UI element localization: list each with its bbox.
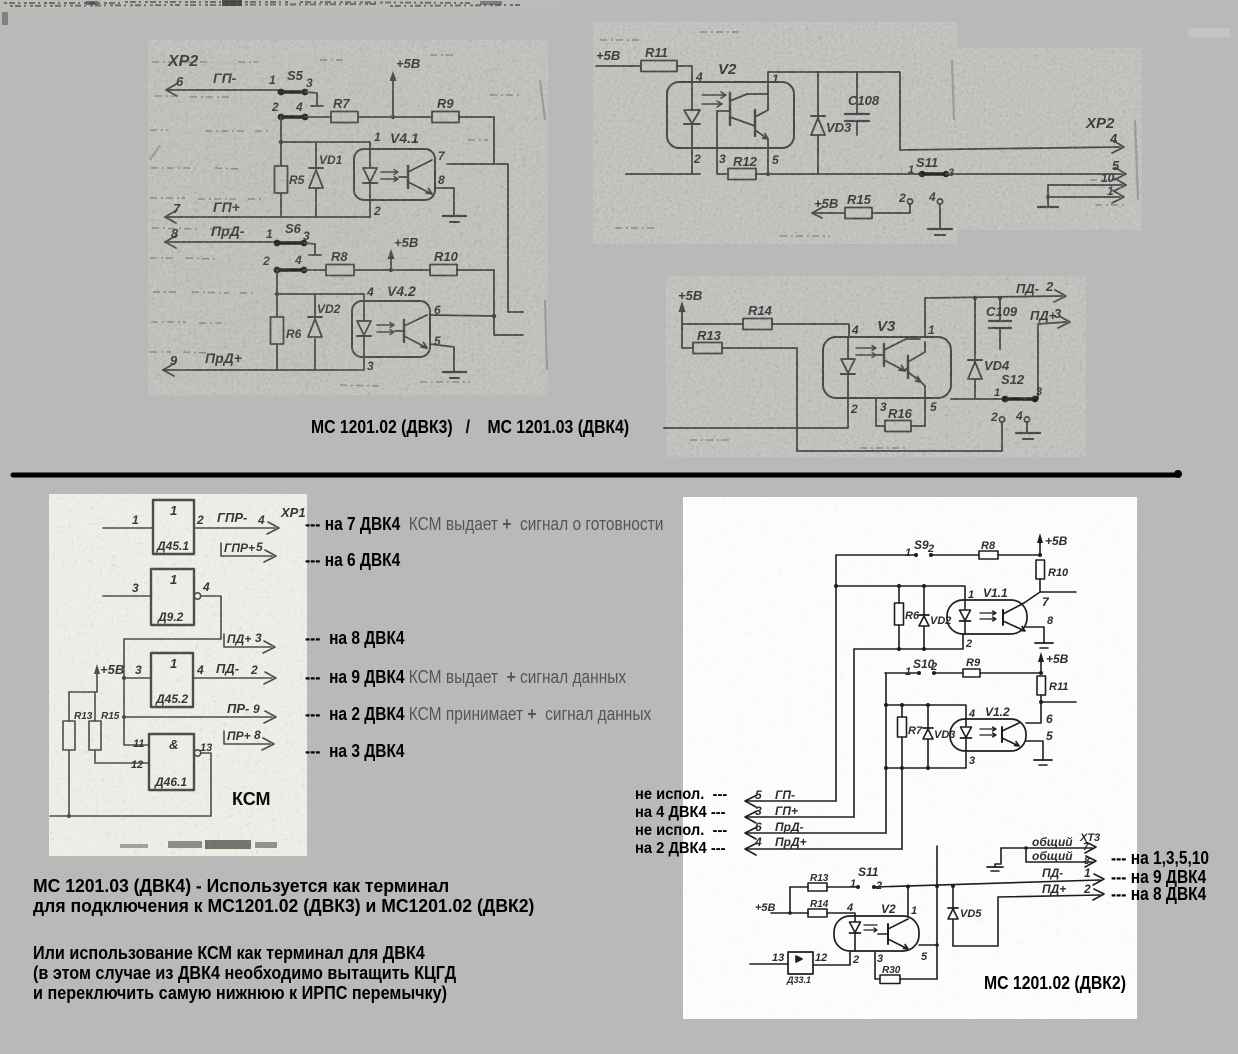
- optocoupler V2: [667, 61, 794, 174]
- svg-text:6: 6: [176, 74, 184, 89]
- svg-text:2: 2: [693, 152, 701, 166]
- svg-text:R15: R15: [847, 192, 872, 207]
- svg-text:ПрД-: ПрД-: [775, 820, 804, 834]
- wire pin2 down: [369, 200, 371, 217]
- wire top net to pin1: [834, 584, 974, 601]
- resistor R10 (DVK2): [1036, 560, 1069, 592]
- wire D33.1 pin13 input: [750, 952, 827, 964]
- svg-text:VD3: VD3: [826, 120, 852, 135]
- wire R14 to opto pin4: [772, 323, 859, 337]
- resistor R13: [682, 328, 722, 354]
- wire pin6-5 ground: [1026, 729, 1053, 760]
- wire box bottom to S12: [951, 398, 1005, 400]
- svg-text:+5В: +5В: [394, 235, 418, 250]
- wire node to opto pin4: [277, 294, 364, 301]
- capacitor C109: [986, 296, 1018, 349]
- svg-text:R8: R8: [981, 540, 996, 552]
- svg-text:+5В: +5В: [100, 662, 124, 677]
- svg-text:5: 5: [1046, 729, 1053, 743]
- right-of-KCM annotations: [305, 514, 663, 535]
- svg-text:12: 12: [815, 952, 827, 964]
- svg-text:ПР-: ПР-: [227, 701, 249, 716]
- svg-text:R12: R12: [733, 154, 758, 169]
- svg-text:4: 4: [202, 580, 210, 594]
- svg-text:1: 1: [994, 387, 1000, 399]
- wire D46.1 pin11 input: [124, 738, 149, 750]
- node GP+ exit arrow pin3: [745, 804, 854, 823]
- svg-text:2: 2: [262, 254, 270, 268]
- svg-text:3: 3: [367, 359, 374, 373]
- svg-text:R9: R9: [437, 96, 454, 111]
- wire R10 right corner down, pin6 junction, stub: [457, 270, 523, 335]
- node common (obschiy) XT3 pin7 arrow: [1001, 832, 1100, 853]
- optocoupler V4.1: [354, 130, 446, 218]
- node PrD+ pin 9 arrow: [163, 350, 364, 376]
- wire opto pin3 down to R12: [717, 111, 728, 174]
- svg-text:V2: V2: [718, 61, 737, 78]
- svg-text:4: 4: [928, 190, 936, 204]
- wire R13 to S12 pin2 (long path): [722, 348, 1002, 451]
- svg-text:6: 6: [1046, 712, 1053, 726]
- switch S9: [905, 538, 934, 559]
- wire top net to pin4: [884, 703, 975, 720]
- wire opto pin3 to R16: [876, 398, 887, 426]
- svg-text:4: 4: [257, 513, 265, 527]
- power +5V feeding R11: [596, 48, 641, 66]
- svg-text:R5: R5: [289, 173, 305, 187]
- resistor R7: [331, 96, 358, 123]
- wire V2 pin5: [919, 945, 937, 963]
- svg-text:3: 3: [880, 400, 887, 414]
- LED: [964, 600, 966, 634]
- phototransistor: [1002, 610, 1004, 625]
- svg-text:S5: S5: [287, 68, 304, 83]
- svg-text:2: 2: [1045, 279, 1054, 294]
- svg-text:1: 1: [1084, 866, 1091, 880]
- svg-text:C108: C108: [848, 93, 880, 108]
- svg-text:6: 6: [755, 820, 762, 834]
- resistor R12: [728, 154, 758, 180]
- svg-text:R8: R8: [331, 249, 348, 264]
- vertical net at x937: [935, 846, 939, 979]
- svg-text:ПрД-: ПрД-: [211, 223, 245, 239]
- svg-text:4: 4: [1015, 409, 1023, 423]
- diode VD5: [948, 886, 982, 946]
- wire opto pin2 down and left: [664, 398, 858, 428]
- svg-text:общий: общий: [1032, 849, 1073, 863]
- svg-text:R7: R7: [908, 725, 923, 737]
- svg-text:R6: R6: [286, 327, 302, 341]
- power +5V (second): [1038, 652, 1069, 673]
- switch S6: [262, 221, 310, 273]
- connector XP1 label: [280, 505, 306, 520]
- svg-text:ГПР+: ГПР+: [224, 541, 255, 555]
- svg-text:VD5: VD5: [960, 908, 982, 920]
- svg-text:ГП-: ГП-: [775, 788, 795, 802]
- svg-text:ХР2: ХР2: [167, 53, 198, 70]
- svg-text:R30: R30: [882, 965, 901, 976]
- svg-text:S9: S9: [914, 538, 929, 552]
- node GP+ pin 7 arrow: [165, 199, 370, 223]
- LED: [847, 337, 849, 398]
- svg-text:+5В: +5В: [814, 196, 838, 211]
- svg-text:3: 3: [132, 581, 139, 595]
- resistor R30: [880, 965, 937, 984]
- wire R13/R14 left link: [788, 887, 792, 915]
- wire S9 row: [836, 554, 916, 556]
- svg-text:1: 1: [905, 547, 911, 559]
- svg-text:ПД+: ПД+: [1030, 308, 1057, 323]
- light arrows: [980, 727, 996, 731]
- long vertical net PrD-: [885, 673, 887, 833]
- svg-text:ГП-: ГП-: [213, 70, 237, 86]
- node PD+ XP1 pin3 arrow: [224, 631, 275, 653]
- svg-text:&: &: [169, 737, 178, 752]
- phototransistor: [403, 320, 405, 342]
- ground (V1.1 pin8): [1035, 643, 1053, 648]
- svg-text:7: 7: [173, 201, 181, 216]
- wire pin7 net to lower stub: [447, 164, 523, 312]
- svg-text:ГП+: ГП+: [213, 199, 240, 215]
- wire pin6 to junction: [430, 315, 494, 316]
- svg-text:8: 8: [1047, 615, 1054, 627]
- switch S10: [905, 657, 937, 678]
- svg-text:9: 9: [253, 702, 260, 716]
- optocoupler V1.1: [947, 586, 1027, 634]
- svg-text:3: 3: [877, 953, 883, 965]
- power +5V (V2 bottom): [755, 902, 808, 914]
- svg-text:8: 8: [438, 173, 445, 187]
- svg-text:9: 9: [170, 353, 178, 368]
- wire D9.2 out down-left bus: [122, 596, 221, 745]
- node GPR- to XP1 pin4 arrow: [194, 510, 279, 534]
- ground (S11 pin4): [928, 229, 952, 235]
- S12 lower pins 2,4: [990, 409, 1030, 424]
- svg-text:7: 7: [438, 149, 446, 163]
- node PR- XP1 pin9 arrow: [124, 701, 276, 723]
- svg-text:1: 1: [968, 589, 974, 601]
- connector XP2 label (right): [1085, 115, 1115, 132]
- resistor R8 (DVK2): [979, 540, 998, 559]
- svg-text:V1.2: V1.2: [985, 705, 1010, 719]
- wire R9 to right corner down to pin7: [459, 117, 494, 164]
- wire R16 to opto pin5: [911, 398, 937, 426]
- wire S9.2 to R8: [931, 554, 979, 556]
- scan blobs at patch bottom: [120, 840, 277, 849]
- optocoupler V4.2: [352, 283, 441, 373]
- long vertical net GP+: [853, 649, 855, 817]
- light arrows: [980, 611, 996, 615]
- svg-text:5: 5: [772, 153, 779, 167]
- wire S10 row: [885, 672, 919, 674]
- node PrD- exit arrow pin6: [745, 820, 886, 839]
- diode VD3: [811, 72, 852, 174]
- node PD+ wire with arrow pin2: [998, 882, 1104, 900]
- switch S11 (DVK2): [850, 865, 882, 892]
- svg-text:ПД-: ПД-: [1016, 281, 1039, 296]
- wire stub from S6 pin3: [304, 243, 321, 255]
- wire stub from S5 pin3: [305, 92, 323, 106]
- wire D46.1 out down to bottom bus: [201, 753, 211, 816]
- node PD- pin2 arrow: [925, 279, 1066, 302]
- diode VD1: [309, 142, 343, 217]
- resistor R11 (DVK2): [1037, 676, 1068, 702]
- svg-text:R13: R13: [810, 873, 829, 884]
- svg-text:4: 4: [846, 902, 853, 914]
- svg-text:VD1: VD1: [319, 153, 343, 167]
- scanned paper patches (backgrounds): [0, 0, 560, 9]
- svg-text:1: 1: [374, 130, 381, 144]
- darlington transistor pair: [729, 93, 731, 125]
- svg-text:ПрД+: ПрД+: [775, 835, 807, 849]
- svg-text:R10: R10: [434, 249, 459, 264]
- svg-text:1: 1: [1107, 184, 1114, 198]
- svg-text:2: 2: [373, 204, 381, 218]
- diode VD4: [968, 296, 1010, 399]
- svg-text:10: 10: [1101, 171, 1115, 185]
- resistor R6: [271, 317, 302, 344]
- node GP- pin 6 arrow: [166, 70, 281, 96]
- svg-text:R15: R15: [101, 711, 120, 722]
- svg-text:2: 2: [990, 410, 998, 424]
- node XP2 pin4 arrow: [900, 131, 1124, 153]
- long vertical net PrD+: [901, 768, 903, 849]
- wire S12 pin4 to ground: [1026, 422, 1028, 433]
- svg-text:R6: R6: [905, 610, 920, 622]
- svg-text:S11: S11: [858, 865, 879, 879]
- logic gate D9.2: [151, 569, 194, 625]
- svg-text:3: 3: [255, 631, 262, 645]
- power +5V (channel 1): [390, 56, 421, 117]
- svg-text:12: 12: [131, 759, 143, 771]
- light arrows: [702, 92, 726, 98]
- D9.2 output bubble pin4: [194, 580, 210, 599]
- bottom-left paragraphs: [33, 876, 534, 915]
- svg-text:V2: V2: [881, 902, 896, 916]
- svg-text:4: 4: [366, 285, 374, 299]
- wire pin5 to ground: [430, 344, 454, 372]
- power +5V (channel 2): [388, 235, 419, 270]
- power +5V (KCM): [69, 662, 124, 692]
- svg-text:ПД-: ПД-: [1042, 866, 1063, 880]
- svg-text:ГПР-: ГПР-: [217, 510, 247, 525]
- resistor R14: [743, 303, 773, 330]
- svg-text:V3: V3: [877, 318, 896, 335]
- resistor R11: [641, 45, 677, 72]
- node PD- XP1 pin2 arrow: [193, 661, 276, 684]
- DVK2 box label: [984, 973, 1126, 994]
- ground hook on common net: [987, 848, 1003, 871]
- wire D46.1 pin12 input: [131, 759, 143, 771]
- wire opto pin1 up to top net: [768, 72, 779, 94]
- phototransistor: [887, 924, 889, 944]
- svg-text:2: 2: [271, 100, 279, 114]
- svg-text:+5В: +5В: [396, 56, 420, 71]
- resistor R15 (KCM): [89, 692, 149, 763]
- diode VD2 (DVK2): [919, 586, 951, 649]
- wire V2 pin1 up to PD- net: [908, 886, 917, 917]
- LED: [363, 301, 365, 357]
- printed caption: [311, 416, 629, 438]
- svg-text:2: 2: [850, 402, 858, 416]
- svg-text:V1.1: V1.1: [983, 586, 1008, 600]
- bottom bus wire: [50, 814, 211, 818]
- resistor R15: [845, 192, 872, 219]
- svg-text:4: 4: [851, 323, 859, 337]
- svg-text:2: 2: [196, 513, 204, 527]
- light arrows: [856, 346, 876, 351]
- svg-text:Д33.1: Д33.1: [786, 975, 811, 985]
- wire S5 junction vertical: [279, 117, 283, 217]
- resistor R10: [430, 249, 459, 276]
- wire R7 to R9 with +5V junction: [358, 115, 432, 119]
- svg-text:4: 4: [1109, 131, 1118, 146]
- svg-text:VD3: VD3: [934, 729, 955, 741]
- light arrows: [381, 170, 398, 175]
- svg-text:R7: R7: [333, 96, 350, 111]
- svg-text:2: 2: [1083, 882, 1091, 896]
- svg-text:2: 2: [250, 663, 258, 677]
- wire VD5 bottom to PD+ corner: [953, 897, 998, 946]
- power +5V via R15: [812, 196, 845, 218]
- svg-text:5: 5: [930, 400, 937, 414]
- svg-text:S12: S12: [1001, 372, 1025, 387]
- wire node to opto pin1: [281, 142, 370, 149]
- wire bottom net of V1.2: [884, 750, 975, 770]
- resistor R13 (DVK2): [790, 873, 858, 891]
- svg-text:1: 1: [269, 73, 276, 87]
- svg-text:4: 4: [294, 253, 302, 267]
- node PrD- pin 8 arrow: [165, 223, 277, 248]
- svg-text:7: 7: [1083, 842, 1089, 853]
- resistor R16: [885, 406, 913, 432]
- node XP2 pin5 arrow: [946, 158, 1126, 180]
- logic gate D45.2: [151, 653, 193, 707]
- wire S5.4 to R7: [305, 116, 331, 118]
- ground (XP2 bracket): [1038, 185, 1058, 207]
- svg-text:1: 1: [170, 572, 177, 587]
- svg-text:4: 4: [754, 835, 762, 849]
- KCM label: [232, 789, 271, 810]
- resistor R14 (DVK2): [808, 899, 855, 917]
- svg-text:C109: C109: [986, 304, 1018, 319]
- diode VD2: [308, 294, 341, 370]
- resistor R9: [432, 96, 459, 123]
- svg-text:+5В: +5В: [678, 288, 702, 303]
- wire bottom net row: [626, 173, 921, 175]
- light arrows: [377, 323, 394, 328]
- svg-text:ПрД+: ПрД+: [205, 350, 242, 366]
- resistor R7 (DVK2): [898, 705, 923, 768]
- svg-text:+5В: +5В: [596, 48, 620, 63]
- node PD+ pin3 arrow: [1030, 306, 1070, 399]
- phototransistor: [407, 166, 409, 188]
- svg-text:1: 1: [266, 227, 273, 241]
- wire opto pin2 (label): [693, 152, 701, 166]
- svg-text:R10: R10: [1048, 567, 1069, 579]
- node common (obschiy) XT3 pin8 arrow: [1026, 848, 1096, 867]
- wire pin8 to ground: [1025, 615, 1054, 643]
- resistor R6 (DVK2): [895, 586, 920, 649]
- svg-text:11: 11: [133, 738, 144, 750]
- wire S6.4 to R8: [304, 269, 326, 271]
- wire R12 to pin5: [756, 153, 779, 176]
- svg-text:ХР1: ХР1: [280, 505, 306, 520]
- wire V2 pin2 to D33.1: [813, 951, 859, 966]
- svg-text:Д46.1: Д46.1: [154, 775, 187, 789]
- svg-text:VD4: VD4: [984, 358, 1010, 373]
- wire S10.2 to R9: [934, 672, 963, 674]
- svg-text:ПД+: ПД+: [227, 632, 251, 646]
- node PR+ XP1 pin8 arrow: [224, 728, 274, 750]
- ground (V4.1 pin8): [443, 216, 466, 222]
- LED: [854, 916, 856, 951]
- svg-text:3: 3: [719, 152, 726, 166]
- svg-text:8: 8: [1084, 856, 1090, 867]
- power +5V: [678, 288, 702, 348]
- capacitor C108: [845, 72, 880, 135]
- svg-text:1: 1: [772, 72, 779, 86]
- svg-text:R14: R14: [748, 303, 773, 318]
- diode VD3 (DVK2): [923, 705, 955, 768]
- svg-text:3: 3: [135, 663, 142, 677]
- svg-text:V4.2: V4.2: [387, 283, 416, 299]
- svg-text:ГП+: ГП+: [775, 804, 798, 818]
- svg-text:1: 1: [850, 878, 856, 890]
- svg-text:2: 2: [965, 638, 972, 650]
- svg-text:Д9.2: Д9.2: [157, 610, 184, 624]
- svg-text:1: 1: [905, 666, 911, 678]
- logic gate D46.1: [149, 734, 194, 790]
- svg-text:2: 2: [852, 954, 859, 966]
- svg-text:ПД+: ПД+: [1042, 882, 1066, 896]
- wire R11 to opto pin4: [677, 66, 703, 84]
- svg-text:4: 4: [968, 708, 975, 720]
- wire top net to XP2-4 corner: [768, 72, 900, 150]
- wire opto pin1 up to PD- net: [925, 298, 935, 337]
- ground (V1.2 pin5): [1034, 760, 1052, 765]
- wire bottom net of V1.1: [854, 634, 972, 651]
- wire pin7 output: [1024, 592, 1076, 609]
- svg-text:3: 3: [1054, 306, 1062, 321]
- wire D9.2 pin3 input: [103, 581, 151, 596]
- power +5V (top): [1037, 533, 1068, 555]
- node PD- wire with arrow pin1: [874, 866, 1104, 889]
- LED: [369, 149, 371, 200]
- ground (S12 pin4): [1016, 433, 1040, 439]
- connector XP2 label: [167, 53, 198, 70]
- top edge scan specks: [0, 0, 1238, 40]
- node GP- exit arrow pin5: [745, 788, 836, 807]
- svg-text:5: 5: [921, 951, 928, 963]
- phototransistor: [1001, 727, 1003, 742]
- svg-text:1: 1: [170, 656, 177, 671]
- wire R15 to S11 pin2: [872, 204, 910, 213]
- svg-text:8: 8: [171, 226, 179, 241]
- node XP2 pins 10/1 bracket arrows: [1046, 171, 1126, 203]
- logic element D33.1: [786, 952, 813, 985]
- svg-text:ХР2: ХР2: [1085, 115, 1115, 132]
- wire R8 to +5V junction: [998, 553, 1042, 557]
- wire D45.2 pin3 input: [124, 663, 151, 678]
- wire pin3 down: [363, 357, 365, 370]
- S11 lower pins 2,4: [898, 190, 943, 205]
- svg-text:R16: R16: [888, 406, 913, 421]
- svg-text:ПР+: ПР+: [227, 729, 251, 743]
- resistor R8: [326, 249, 354, 276]
- wire pin8 to ground: [435, 188, 454, 216]
- wire S6 junction vertical: [275, 270, 279, 370]
